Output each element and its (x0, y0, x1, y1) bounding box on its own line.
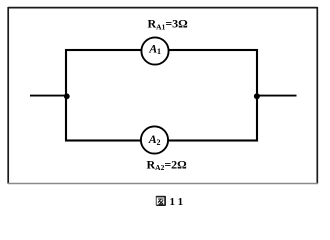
wire: parallel loop rectangle (66, 50, 257, 141)
svg-text:2: 2 (157, 138, 161, 147)
svg-text:A: A (148, 132, 157, 146)
wire: left lead (30, 95, 66, 97)
frame border (8, 7, 318, 184)
node: left junction (64, 93, 70, 99)
ammeter A1 (141, 37, 168, 64)
svg-text:11: 11 (170, 196, 187, 208)
caption: figure 11 (Chinese char drawn as strokes) (156, 196, 165, 206)
svg-text:A: A (148, 41, 157, 55)
wire: right lead (257, 95, 297, 97)
svg-text:1: 1 (157, 47, 161, 56)
node: right junction (254, 93, 260, 99)
svg-text:RA2=2Ω: RA2=2Ω (147, 157, 188, 172)
svg-text:RA1=3Ω: RA1=3Ω (148, 17, 189, 32)
ammeter A2 (141, 126, 168, 153)
